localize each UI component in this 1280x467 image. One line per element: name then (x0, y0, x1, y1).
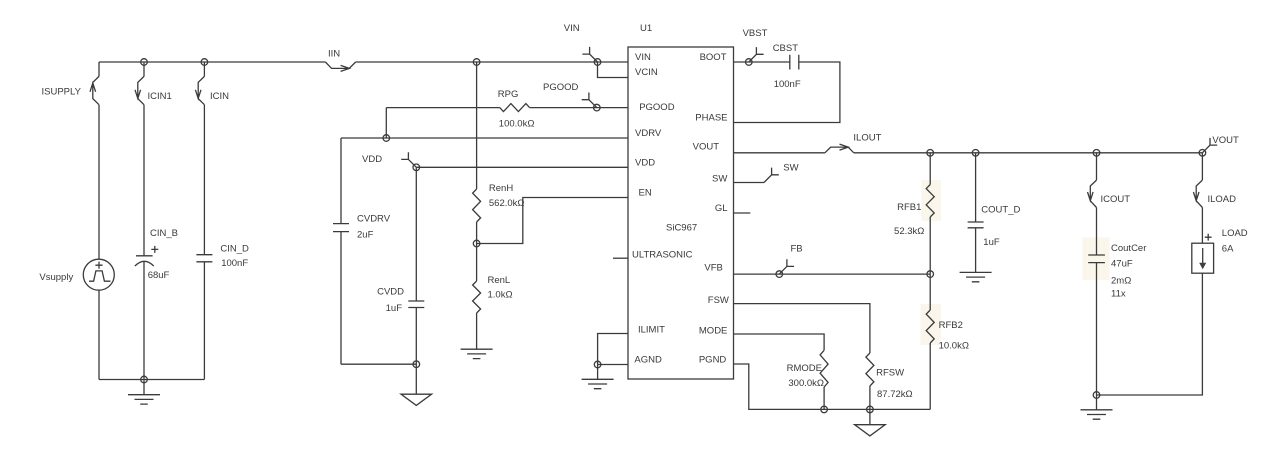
net flag FB (776, 271, 783, 278)
wire source to bottom (98, 290, 100, 379)
ground RenL (461, 349, 493, 358)
net flag VIN (594, 59, 601, 66)
svg-text:2mΩ: 2mΩ (1111, 276, 1131, 287)
node junction bottom (141, 376, 148, 383)
wire MODE (734, 334, 825, 350)
source Vsupply (39, 259, 114, 290)
resistor RFSW (866, 353, 874, 386)
svg-text:10.0kΩ: 10.0kΩ (939, 341, 969, 352)
svg-text:CIN_B: CIN_B (150, 228, 178, 239)
svg-text:VDD: VDD (362, 154, 382, 165)
net flag PGOOD (594, 104, 601, 111)
svg-text:1uF: 1uF (983, 237, 1000, 248)
svg-text:1.0kΩ: 1.0kΩ (488, 290, 513, 301)
svg-text:VCIN: VCIN (635, 67, 658, 78)
svg-text:1uF: 1uF (386, 303, 403, 314)
wire LOAD bottom (1097, 273, 1203, 395)
capacitor CoutCer (1096, 208, 1098, 256)
wire VDD (416, 166, 628, 168)
wire ILOAD top (1201, 153, 1203, 180)
wire BOOT (734, 61, 790, 63)
ground AGND (597, 365, 599, 380)
svg-text:VOUT: VOUT (693, 142, 720, 153)
svg-text:BOOT: BOOT (700, 52, 727, 63)
svg-text:ILIMIT: ILIMIT (638, 325, 665, 336)
resistor RMODE (820, 350, 828, 387)
capacitor CIN_B (143, 105, 145, 256)
wire EN link (477, 198, 628, 244)
svg-text:RenL: RenL (488, 275, 511, 286)
svg-text:PHASE: PHASE (695, 113, 727, 124)
svg-text:ILOUT: ILOUT (853, 133, 881, 144)
ground bottom right (1096, 395, 1098, 410)
svg-text:PGOOD: PGOOD (543, 82, 579, 93)
capacitor CVDD (415, 167, 417, 301)
capacitor COUT_D (975, 153, 977, 222)
svg-text:COUT_D: COUT_D (981, 205, 1020, 216)
svg-text:ICIN1: ICIN1 (148, 91, 172, 102)
svg-text:52.3kΩ: 52.3kΩ (894, 226, 924, 237)
svg-text:AGND: AGND (634, 355, 662, 366)
svg-text:VIN: VIN (564, 23, 580, 34)
svg-text:CIN_D: CIN_D (220, 244, 249, 255)
node junction COUT_D top (972, 150, 979, 157)
svg-text:PGND: PGND (699, 355, 727, 366)
resistor RenL (476, 244, 478, 282)
wire VOUT rail (854, 152, 1203, 154)
svg-text:LOAD: LOAD (1222, 228, 1248, 239)
svg-text:FB: FB (791, 243, 803, 254)
resistor RenH (476, 62, 478, 189)
svg-text:ICIN: ICIN (210, 91, 229, 102)
svg-text:ILOAD: ILOAD (1208, 194, 1237, 205)
svg-text:SW: SW (783, 162, 798, 173)
svg-text:VIN: VIN (635, 52, 651, 63)
svg-text:CoutCer: CoutCer (1111, 243, 1146, 254)
wire ULTRASONIC stub (613, 257, 628, 259)
node junction RenH RenL (473, 240, 480, 247)
net flag VOUT (1199, 150, 1206, 157)
wire left rail to source (98, 105, 100, 260)
probe ICIN (195, 76, 204, 104)
svg-text:RMODE: RMODE (787, 363, 822, 374)
svg-text:SiC967: SiC967 (666, 223, 697, 234)
svg-text:VDRV: VDRV (635, 128, 662, 139)
node junction AGND (594, 361, 601, 368)
node junction RFSW bottom (867, 406, 874, 413)
node junction VFB RFB (927, 271, 934, 278)
resistor RFB1 (929, 153, 931, 185)
svg-text:11x: 11x (1111, 289, 1126, 300)
svg-text:ISUPPLY: ISUPPLY (42, 87, 82, 98)
wire ILIMIT (598, 334, 628, 365)
probe ICOUT (1088, 180, 1097, 207)
highlight RFB1 (922, 180, 942, 221)
capacitor CBST (790, 55, 799, 70)
svg-text:VDD: VDD (635, 158, 655, 169)
wire VDRV (341, 137, 628, 139)
svg-text:VBST: VBST (743, 28, 768, 39)
op-amp U1 SiC967 body (628, 47, 734, 379)
capacitor CVDRV (340, 138, 342, 224)
wire CIN_B top (143, 62, 145, 76)
svg-text:ULTRASONIC: ULTRASONIC (632, 250, 693, 261)
svg-text:47uF: 47uF (1111, 258, 1133, 269)
capacitor CIN_D (203, 105, 205, 255)
svg-text:CVDD: CVDD (377, 287, 404, 298)
node junction bottom right (1093, 392, 1100, 399)
wire CVDRV bottom (341, 363, 416, 365)
net flag VDD (413, 164, 420, 171)
wire top rail right (356, 61, 628, 63)
wire CIN_D top (203, 62, 205, 76)
svg-text:300.0kΩ: 300.0kΩ (788, 378, 824, 389)
svg-text:CVDRV: CVDRV (357, 214, 391, 225)
wire FSW (734, 304, 870, 353)
svg-text:VOUT: VOUT (1212, 135, 1239, 146)
current source LOAD (1201, 208, 1203, 244)
wire top rail left (99, 61, 325, 63)
probe ILOAD (1193, 180, 1202, 207)
node junction CIN_B top (141, 59, 148, 66)
node junction CIN_D top (201, 59, 208, 66)
probe ILOUT (825, 144, 854, 153)
svg-text:100.0kΩ: 100.0kΩ (499, 118, 535, 129)
wire CoutCer top (1096, 153, 1098, 180)
svg-text:FSW: FSW (708, 295, 729, 306)
svg-text:2uF: 2uF (357, 230, 374, 241)
node junction RMODE bottom (821, 406, 828, 413)
net flag VBST (746, 59, 753, 66)
svg-text:RFSW: RFSW (876, 367, 904, 378)
svg-text:Vsupply: Vsupply (39, 272, 73, 283)
node junction CVDD bottom (413, 361, 420, 368)
wire AGND (598, 364, 628, 366)
svg-text:IIN: IIN (328, 49, 340, 60)
svg-text:68uF: 68uF (148, 270, 170, 281)
ground triangle PGND (869, 409, 871, 424)
svg-text:VFB: VFB (704, 263, 722, 274)
wire bottom left rail (99, 379, 204, 381)
highlight RFB2 (921, 304, 942, 345)
wire GL stub (734, 212, 751, 214)
ground triangle CVDD (415, 364, 417, 394)
probe ICIN1 (135, 76, 144, 104)
resistor RPG (386, 107, 499, 109)
svg-text:RFB1: RFB1 (897, 202, 921, 213)
svg-text:GL: GL (715, 203, 728, 214)
probe ISUPPLY (90, 76, 99, 104)
node junction CoutCer top (1093, 150, 1100, 157)
svg-text:ICOUT: ICOUT (1101, 194, 1131, 205)
svg-text:EN: EN (639, 188, 652, 199)
wire VCIN elbow (598, 62, 629, 78)
node junction VDRV (383, 135, 390, 142)
svg-text:RenH: RenH (489, 183, 513, 194)
probe IIN (325, 62, 355, 71)
svg-text:562.0kΩ: 562.0kΩ (489, 198, 525, 209)
highlight CoutCer (1083, 238, 1110, 281)
svg-text:SW: SW (712, 174, 727, 185)
svg-text:MODE: MODE (699, 326, 728, 337)
node junction RFB1 top (927, 150, 934, 157)
wire VFB (734, 273, 931, 275)
svg-text:100nF: 100nF (774, 79, 801, 90)
svg-text:RFB2: RFB2 (939, 320, 963, 331)
node junction RenH top (473, 59, 480, 66)
net flag SW (734, 182, 765, 184)
svg-text:6A: 6A (1222, 243, 1234, 254)
ground COUT_D (960, 272, 992, 281)
wire CBST to PHASE (734, 62, 840, 123)
svg-text:CBST: CBST (773, 43, 799, 54)
wire VOUT from pin (734, 152, 825, 154)
ground left (143, 380, 145, 395)
resistor RFB2 (929, 274, 931, 310)
svg-text:87.72kΩ: 87.72kΩ (877, 389, 913, 400)
svg-text:RPG: RPG (498, 89, 519, 100)
svg-text:U1: U1 (640, 23, 652, 34)
svg-text:PGOOD: PGOOD (639, 102, 675, 113)
wire PGND (734, 364, 931, 409)
svg-text:100nF: 100nF (221, 258, 248, 269)
wire left rail upper (98, 62, 100, 76)
wire RPG to VDRV (385, 108, 387, 138)
